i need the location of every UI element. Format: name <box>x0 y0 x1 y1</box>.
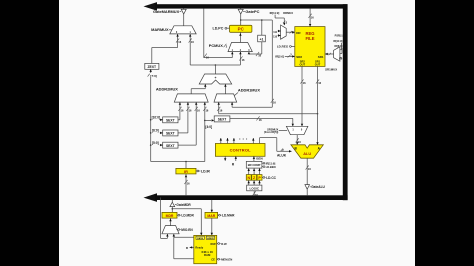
svg-text:ADDR: ADDR <box>207 237 214 240</box>
register Z <box>252 175 257 181</box>
node IR[2:0] into SR2 <box>275 53 295 58</box>
svg-text:BR COMP: BR COMP <box>248 163 261 167</box>
svg-text:MARMUX: MARMUX <box>151 27 169 32</box>
wire: SEXT outputs to ADDR2MUX <box>178 120 196 145</box>
svg-text:PSR[-]: PSR[-] <box>335 35 343 38</box>
svg-text:LD.MAR: LD.MAR <box>222 214 235 218</box>
svg-text:ZEXT: ZEXT <box>147 65 157 69</box>
bus: top segment with left arrowhead <box>144 2 348 11</box>
svg-text:(from IR[5]): (from IR[5]) <box>264 130 279 134</box>
svg-text:CE: CE <box>211 257 215 261</box>
control signal LD.PC <box>213 27 230 31</box>
wire: MARMUX output to bus through gate <box>183 9 185 26</box>
svg-text:N: N <box>247 176 250 180</box>
left black pillarbox bar <box>0 0 59 266</box>
bus: lower segment with left arrowhead <box>144 193 348 202</box>
svg-text:[8:0]: [8:0] <box>152 129 159 133</box>
wire: bus into IR <box>184 174 190 195</box>
svg-text:R/W: R/W <box>211 242 217 246</box>
svg-text:IR[2:0]: IR[2:0] <box>275 54 284 58</box>
wire: ALU output to GateALU <box>306 158 312 184</box>
svg-text:LD.PC: LD.PC <box>213 27 224 31</box>
svg-text:LD.CC: LD.CC <box>266 176 276 180</box>
wire: SR1OUT horizontal branch line <box>219 113 319 115</box>
comparator BR COMP <box>246 161 262 168</box>
svg-text:SR1MUX: SR1MUX <box>325 68 337 72</box>
sign-extend ZEXT <box>145 63 159 69</box>
svg-text:FILE: FILE <box>305 36 314 41</box>
svg-text:LD.IR: LD.IR <box>201 169 210 173</box>
sign-extend SEXT [10:0] <box>150 115 178 122</box>
svg-text:IR[11:9]: IR[11:9] <box>333 40 342 43</box>
control signal LD.CC <box>262 176 277 180</box>
svg-text:111: 111 <box>273 31 278 34</box>
wire: ADDR2MUX output into adder <box>191 84 206 94</box>
svg-text:GatePC: GatePC <box>245 9 259 14</box>
svg-text:SEXT: SEXT <box>166 119 175 123</box>
control signal MEM.EN <box>217 258 233 262</box>
svg-text:RAM: RAM <box>204 253 211 257</box>
wire: IR output distribution <box>151 161 205 169</box>
adder <box>199 74 232 84</box>
register file REG FILE <box>295 27 325 67</box>
control signal IR[11:9] into BR COMP <box>262 161 276 165</box>
svg-text:GateMARMUX: GateMARMUX <box>153 9 180 14</box>
svg-text:ADDR2MUX: ADDR2MUX <box>156 87 178 92</box>
wire: adder output distribution line <box>190 64 240 74</box>
control signal LD.IR <box>196 169 210 173</box>
wire: SR1 OUT down to ALU A <box>316 66 322 144</box>
register PC <box>230 25 252 32</box>
control signal R and LD outputs below control <box>224 156 237 166</box>
svg-text:SEXT: SEXT <box>166 132 175 136</box>
svg-text:+: + <box>215 76 217 80</box>
wire: memory data out into INMUX <box>173 234 194 259</box>
svg-text:GateMDR: GateMDR <box>176 203 191 207</box>
wire: PCMUX output into PC <box>239 32 241 42</box>
wire: ADDR1MUX output into adder <box>224 84 226 94</box>
svg-text:SEXT: SEXT <box>166 144 175 148</box>
wire: bus tap down to PCMUX input 1 <box>204 9 234 60</box>
control signal MIO.EN <box>177 228 194 232</box>
wire: adder output to PCMUX input 2 <box>239 52 245 65</box>
wire: MAR to memory address <box>211 218 213 235</box>
register IR <box>176 168 196 174</box>
wire: MDR to memory write data <box>172 208 203 235</box>
right black pillarbox bar <box>415 0 474 266</box>
svg-text:ADDR1MUX: ADDR1MUX <box>238 87 260 92</box>
mux SR1MUX <box>325 35 343 72</box>
wire: bus tap into REG FILE <box>309 9 315 27</box>
svg-text:MEM.EN: MEM.EN <box>221 258 232 262</box>
svg-text:DRMUX: DRMUX <box>283 11 293 15</box>
svg-text:+1: +1 <box>259 37 263 41</box>
mux SR2MUX <box>264 126 308 134</box>
svg-text:SR2: SR2 <box>296 55 302 59</box>
control signal LD.BEN into BR COMP <box>262 165 276 169</box>
wire: bus into LOGIC <box>253 191 259 197</box>
svg-text:[4:0]: [4:0] <box>205 125 212 129</box>
wire: Ready output R <box>186 246 194 250</box>
svg-text:LOGIC: LOGIC <box>250 187 260 191</box>
svg-text:BEN: BEN <box>256 156 262 160</box>
svg-text:PC: PC <box>238 27 245 32</box>
wire: SR2 OUT down to SR2MUX <box>300 66 306 126</box>
gate GateMARMUX (tri-state driver onto bus) <box>153 9 186 14</box>
node [7:0] label on ZEXT input <box>147 69 158 161</box>
svg-text:ALUK: ALUK <box>277 154 287 158</box>
control signal R.W <box>217 242 227 246</box>
mux MARMUX <box>151 26 196 34</box>
svg-text:IR: IR <box>184 170 188 174</box>
incrementer +1 <box>258 35 266 42</box>
wire: LOGIC to NZP <box>248 180 261 185</box>
sign-extend SEXT [8:0] <box>150 129 178 136</box>
svg-text:MAR: MAR <box>207 214 215 218</box>
wire: SEXT[4:0] to SR2MUX <box>230 116 294 126</box>
svg-text:IR[11:9]: IR[11:9] <box>266 161 276 165</box>
control signal ALUK <box>260 138 292 158</box>
bus: right vertical segment <box>343 4 348 200</box>
gate GateMDR <box>170 200 192 212</box>
wire: SR2MUX output to ALU B <box>296 135 302 145</box>
svg-text:110: 110 <box>273 36 278 39</box>
wire: ADDR2MUX input wires with width marks <box>178 102 209 161</box>
wire: ZEXT output to MARMUX input 0 <box>152 34 182 63</box>
wire: PC output up to GatePC and bus <box>240 9 242 26</box>
svg-text:DATA: DATA <box>197 237 203 240</box>
register P <box>257 175 262 181</box>
mux INMUX (MIO.EN) <box>162 218 179 234</box>
alu ALU <box>291 145 323 158</box>
sign-extend SEXT [4:0] (imm5) <box>204 116 230 129</box>
logic block LOGIC <box>247 185 262 191</box>
svg-text:REG: REG <box>305 31 314 36</box>
control signal LD.REG <box>277 45 295 49</box>
svg-text:OUT: OUT <box>300 63 306 67</box>
svg-text:ALU: ALU <box>303 152 311 156</box>
svg-text:IR[11:9]: IR[11:9] <box>270 11 280 15</box>
svg-text:LD.BEN: LD.BEN <box>266 165 276 169</box>
memory MEMORY <box>194 235 217 263</box>
wire: +1 output to PCMUX input 0 <box>248 42 262 58</box>
mux ADDR2MUX <box>156 87 208 103</box>
wire: PC out to +1 <box>240 19 272 35</box>
svg-text:GateALU: GateALU <box>311 185 325 189</box>
svg-text:CONTROL: CONTROL <box>230 148 252 153</box>
svg-text:MDR: MDR <box>166 214 174 218</box>
mux DRMUX <box>270 11 295 39</box>
register MDR <box>162 212 177 218</box>
svg-text:LD.REG: LD.REG <box>277 45 289 49</box>
mux PCMUX <box>209 43 253 52</box>
wire: ADDR1MUX input PC <box>231 20 277 107</box>
wire: adder output to MARMUX input 1 <box>189 34 195 65</box>
control signal LD.MAR <box>218 214 235 218</box>
wire: bus into MAR <box>211 200 213 212</box>
svg-text:[10:0]: [10:0] <box>152 115 161 119</box>
gate GatePC <box>238 9 259 14</box>
control unit CONTROL <box>215 144 265 157</box>
wire: BEN into control <box>253 156 263 161</box>
gate GateALU <box>305 185 326 196</box>
wire: control outputs upward <box>220 138 255 144</box>
svg-text:[5:0]: [5:0] <box>152 141 159 145</box>
wire: bus into INMUX <box>161 198 169 239</box>
wire: NZP to BR COMP <box>248 168 261 175</box>
register MAR <box>205 212 218 218</box>
svg-text:OUT: OUT <box>315 63 321 67</box>
svg-text:[7:0]: [7:0] <box>150 74 157 78</box>
sign-extend SEXT [5:0] <box>150 141 178 148</box>
svg-text:LD.MDR: LD.MDR <box>181 214 194 218</box>
control signal LD.MDR <box>177 214 194 218</box>
svg-text:Ready: Ready <box>195 245 203 249</box>
svg-text:PCMUX: PCMUX <box>209 43 223 48</box>
svg-text:SEXT: SEXT <box>218 118 227 122</box>
svg-text:R.W: R.W <box>221 242 227 246</box>
svg-text:MIO.EN: MIO.EN <box>181 228 193 232</box>
mux ADDR1MUX <box>214 87 260 102</box>
svg-text:SR1: SR1 <box>318 55 324 59</box>
register N <box>246 175 251 181</box>
wire: ADDR1MUX input SR1OUT <box>217 102 223 114</box>
